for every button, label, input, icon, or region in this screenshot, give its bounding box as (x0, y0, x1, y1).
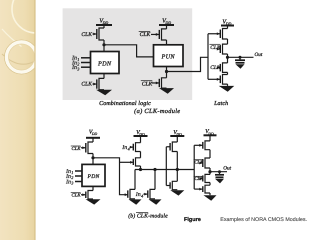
svg-text:DD: DD (102, 21, 109, 25)
wire M1b to PDN-b (92, 154, 94, 165)
PDN box (91, 52, 120, 74)
PMOS latch-a P1 (208, 29, 228, 40)
svg-text:Examples of NORA CMOS Modules.: Examples of NORA CMOS Modules. (220, 217, 307, 223)
PMOS precharge M1b (CLKbar) (81, 142, 93, 154)
wire VDD to M1b (92, 138, 94, 142)
node C junction (91, 156, 94, 159)
wire VDD to latch-b stack (209, 135, 211, 141)
svg-text:CLK: CLK (81, 32, 92, 38)
PMOS latch-b P2 (CLK) (199, 158, 210, 168)
out node junction latch-a (226, 56, 229, 59)
svg-text:3: 3 (71, 181, 73, 186)
wire N4 to ground latch-b (209, 193, 211, 195)
VDD rail stage3b (170, 130, 184, 137)
svg-text:CLK: CLK (194, 176, 204, 182)
svg-text:Figure: Figure (184, 217, 201, 223)
svg-text:3: 3 (77, 66, 79, 71)
wire PDN to M2a (103, 74, 105, 79)
VDD rail stage2a (159, 18, 174, 25)
svg-text:CLK: CLK (81, 82, 92, 88)
wire VDD to M1a (103, 25, 105, 28)
wire node C to stage2b gates (93, 158, 128, 195)
input In2 (b) (75, 175, 82, 177)
NMOS stage2b N2 (In4) (144, 189, 156, 198)
wire P1b-P2b (140, 152, 142, 158)
svg-text:(b) CLK-module: (b) CLK-module (128, 213, 168, 220)
svg-text:CLK: CLK (140, 32, 151, 38)
svg-text:In: In (135, 192, 141, 198)
gray panel (combinational logic block) (63, 8, 193, 100)
VDD rail stage2b (134, 130, 148, 137)
svg-text:In: In (71, 65, 77, 71)
bus junction stage2b (139, 168, 142, 171)
svg-text:CLK: CLK (142, 81, 153, 87)
right NMOS branch wire (154, 170, 156, 190)
wire M1a drain to node A (103, 40, 105, 52)
ground stage2b N1 (129, 199, 142, 204)
input In2 (81, 62, 91, 64)
load capacitor latch-b (215, 170, 224, 177)
sidebar arc upper (12, 0, 60, 33)
input In1 (81, 57, 91, 59)
PUN box (154, 45, 184, 67)
wire N3-N4 (227, 72, 229, 74)
PMOS precharge M1a (CLK) (93, 28, 105, 40)
junction stage3b on bus (176, 168, 179, 171)
wire P1-P2 (227, 39, 229, 44)
svg-text:DD: DD (164, 21, 171, 25)
input In3 (81, 66, 91, 68)
NMOS latch-b N4 (194, 185, 210, 193)
svg-text:Out: Out (255, 52, 263, 58)
wire node B to latch input (167, 57, 209, 71)
wire out latch-a (228, 56, 254, 58)
svg-text:Out: Out (223, 165, 231, 171)
ground stage2b N2 (149, 199, 162, 204)
svg-text:DD: DD (225, 22, 232, 26)
VDD rail latch-b (204, 129, 217, 136)
svg-text:PDN: PDN (87, 174, 100, 180)
PMOS stage2b P2 (133, 158, 140, 166)
PMOS stage3b (166, 142, 177, 152)
wire P2b to bus (140, 166, 142, 170)
sidebar edge line (34, 0, 35, 240)
wire PDN-b to M2b (92, 186, 94, 190)
wire VDD to M3a (166, 25, 168, 29)
wire P3b to bus (176, 152, 178, 182)
NMOS stage2b N1 (128, 189, 135, 198)
wire P2 to out node latch-b (209, 168, 211, 174)
wire N3-N4 latch-b (209, 183, 211, 186)
wire VDD to latch stack (227, 26, 229, 29)
junction right NMOS on bus (153, 168, 156, 171)
svg-text:In: In (121, 145, 127, 151)
wire out latch-b (210, 171, 227, 173)
ground latch-b (204, 195, 217, 201)
svg-text:DD: DD (91, 132, 98, 136)
svg-text:CLK: CLK (72, 193, 82, 199)
svg-text:PDN: PDN (97, 60, 112, 67)
NMOS evaluate M2a (CLK) (93, 78, 105, 89)
svg-text:DD: DD (207, 132, 214, 136)
node B junction (165, 70, 168, 73)
wire node A to PUN input (104, 45, 154, 57)
svg-text:CLK: CLK (72, 146, 82, 152)
svg-text:(a) CLK-module: (a) CLK-module (134, 108, 180, 115)
PMOS stage2b P1 (In4) (130, 143, 141, 152)
VDD rail latch-a (221, 19, 234, 26)
VDD rail stage1b (86, 130, 100, 138)
out node junction latch-b (208, 170, 211, 173)
sidebar arc mid (2, 29, 22, 47)
input In1 (b) (75, 170, 82, 172)
NMOS evaluate M4a (CLKbar) (152, 78, 167, 88)
VDD rail stage1a (96, 18, 112, 25)
node A junction (102, 43, 105, 46)
left NMOS branch wire (134, 170, 136, 190)
svg-text:DD: DD (175, 132, 182, 136)
ground stage3b (170, 190, 184, 195)
svg-text:Combinational logic: Combinational logic (99, 100, 151, 107)
wire P2 to out node (227, 54, 229, 63)
svg-text:PUN: PUN (160, 54, 175, 61)
stub node C to P2b gate (120, 161, 134, 163)
svg-text:In: In (65, 179, 71, 185)
output bus (b) (135, 169, 194, 171)
capacitor ground latch-a (236, 64, 245, 69)
wire M3a to PUN box (166, 40, 168, 45)
wire P1-P2 latch-b (209, 150, 211, 158)
wire VDD to P1b (140, 136, 142, 143)
sidebar arc crossing (2, 54, 35, 64)
PMOS precharge M3a (CLKbar) (151, 29, 167, 40)
svg-text:CLK: CLK (210, 65, 221, 71)
wire N4 to ground (227, 84, 229, 86)
PMOS latch-a P2 (CLKbar) (217, 44, 228, 54)
load capacitor latch-a (235, 56, 245, 63)
latch-a input gate rail (207, 34, 209, 80)
NMOS stage3b (166, 181, 177, 189)
wire VDD to P3b (176, 136, 178, 142)
NMOS evaluate M2b (CLKbar) (81, 191, 93, 200)
wire PUN to node B (166, 67, 168, 78)
PDN-b box (82, 164, 105, 186)
NMOS latch-a N4 (208, 75, 228, 85)
capacitor ground latch-b (215, 179, 224, 184)
svg-text:CLK: CLK (210, 45, 221, 51)
NMOS latch-b N3 (CLKbar) (199, 174, 210, 182)
arrow at N1b gate (125, 193, 128, 196)
NMOS latch-a N3 (CLK) (217, 63, 228, 73)
input In3 (b) (75, 181, 82, 183)
latch-b input gate rail (193, 145, 195, 189)
ground stage2a (159, 88, 174, 94)
ground stage1a (96, 90, 112, 96)
stage3b gate rail (165, 147, 167, 186)
sidebar ring (5, 40, 39, 74)
overline on CLK in caption (b) (136, 212, 148, 214)
ground latch-a (219, 86, 235, 92)
svg-text:CLK: CLK (194, 160, 204, 166)
ground stage1b (86, 199, 101, 204)
svg-text:DD: DD (138, 132, 145, 136)
PMOS latch-b P1 (194, 141, 210, 150)
svg-text:Latch: Latch (213, 100, 228, 107)
arrow at P2b gate (130, 161, 133, 164)
